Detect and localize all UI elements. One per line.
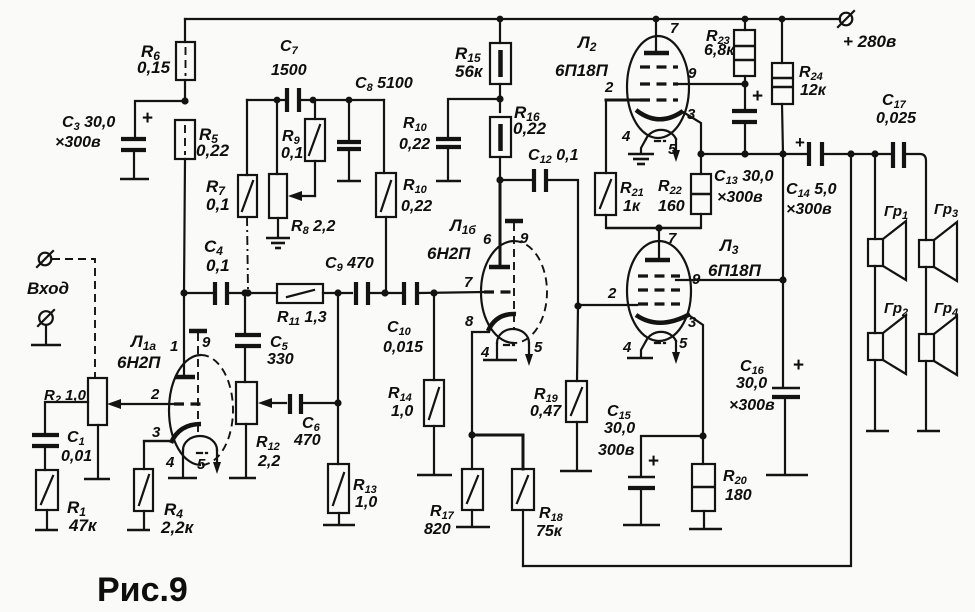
svg-text:×300в: ×300в: [786, 201, 832, 218]
pentode U-L2 envelope: [555, 33, 689, 138]
caption Рис.9: [97, 571, 188, 609]
tube L2 plate pin7: [644, 19, 679, 53]
svg-text:2,2к: 2,2к: [160, 518, 195, 537]
svg-text:Л3: Л3: [718, 236, 739, 257]
node junction R15/R16/C11: [496, 95, 503, 102]
resistor R16: [490, 103, 547, 180]
wire L3 screen: [676, 276, 787, 283]
resistor R7: [206, 100, 257, 291]
svg-text:1,0: 1,0: [355, 494, 377, 511]
svg-text:0,22: 0,22: [513, 119, 547, 138]
svg-text:+: +: [142, 108, 153, 129]
svg-text:0,01: 0,01: [61, 448, 92, 465]
svg-text:C1: C1: [67, 429, 85, 448]
svg-text:1: 1: [170, 338, 178, 355]
svg-text:Гр3: Гр3: [934, 201, 958, 220]
svg-text:Вход: Вход: [27, 279, 69, 298]
wire grid L3: [578, 304, 637, 306]
svg-text:5: 5: [679, 335, 688, 352]
capacitor C14: [786, 133, 890, 218]
svg-text:Гр4: Гр4: [934, 300, 958, 319]
resistor R14: [388, 293, 452, 475]
svg-text:C4: C4: [204, 237, 223, 258]
svg-text:47к: 47к: [68, 516, 98, 535]
wire input shield dashed: [52, 259, 95, 378]
tube L1b heater: [480, 329, 543, 366]
resistor R21: [595, 173, 644, 228]
resistor R9: [281, 100, 325, 196]
svg-text:6,8к: 6,8к: [704, 42, 735, 59]
svg-text:C7: C7: [280, 38, 299, 57]
svg-text:0,015: 0,015: [383, 339, 424, 356]
svg-text:1к: 1к: [623, 198, 641, 215]
wire screen column / C16: [782, 154, 784, 386]
capacitor C11 decoupling: [399, 99, 500, 181]
terminal input jack top: [37, 251, 53, 267]
svg-text:6П18П: 6П18П: [555, 61, 609, 80]
node junction R6/R5/C3: [181, 97, 188, 104]
svg-text:6Н2П: 6Н2П: [117, 353, 161, 372]
wire output rail y154: [697, 150, 806, 157]
svg-text:R24: R24: [799, 64, 823, 83]
wire feedback bottom: [523, 154, 851, 566]
svg-text:R12: R12: [256, 434, 280, 453]
svg-text:180: 180: [725, 487, 752, 504]
node junction plate column L1a: [180, 289, 187, 296]
svg-text:3: 3: [687, 106, 696, 123]
svg-text:Л1а: Л1а: [129, 332, 156, 353]
capacitor C5: [235, 293, 294, 382]
svg-text:3: 3: [152, 424, 161, 441]
svg-text:Рис.9: Рис.9: [97, 571, 188, 609]
resistor R13: [323, 293, 377, 525]
node junction C6/R13 column: [334, 399, 341, 406]
svg-text:1500: 1500: [271, 62, 307, 79]
tube L2 heater: [621, 128, 680, 162]
resistor R11: [277, 284, 327, 328]
svg-text:300в: 300в: [598, 442, 635, 459]
svg-text:C14 5,0: C14 5,0: [786, 181, 837, 200]
resistor R19: [530, 306, 592, 471]
pentode U-L3 envelope: [627, 236, 762, 341]
svg-text:6: 6: [483, 231, 492, 248]
svg-text:R20: R20: [723, 468, 748, 487]
tube L3 grids: [607, 271, 701, 304]
svg-text:R11 1,3: R11 1,3: [277, 309, 327, 328]
svg-text:0,1: 0,1: [206, 256, 230, 275]
svg-text:7: 7: [464, 274, 473, 291]
node junction C9/C10/R10: [381, 289, 388, 296]
resistor R23: [704, 19, 755, 84]
svg-text:+ 280в: + 280в: [843, 32, 896, 51]
svg-text:R21: R21: [620, 180, 644, 199]
tube L2 grids: [604, 65, 697, 100]
capacitor C1: [32, 429, 92, 470]
loudspeaker Gr1: [868, 154, 908, 280]
svg-text:470: 470: [293, 432, 321, 449]
tube L1b grid pin7: [464, 274, 514, 292]
loudspeaker Gr3: [919, 201, 958, 281]
svg-text:5: 5: [668, 141, 677, 158]
node junction C10/R14 grid: [430, 289, 437, 296]
svg-text:5: 5: [197, 456, 206, 473]
svg-text:×300в: ×300в: [55, 134, 101, 151]
node junction feedback tap: [847, 150, 854, 157]
tube L1b plate pin6: [483, 180, 510, 267]
svg-text:Гр1: Гр1: [884, 203, 908, 222]
svg-text:8: 8: [465, 313, 474, 330]
capacitor C12: [500, 147, 579, 306]
svg-text:56к: 56к: [455, 62, 484, 81]
svg-text:30,0: 30,0: [736, 375, 767, 392]
capacitor C17: [876, 92, 926, 240]
svg-text:R22: R22: [658, 178, 682, 197]
node junction R23/C13/screen: [741, 80, 748, 87]
resistor R20: [689, 436, 752, 529]
svg-text:9: 9: [520, 230, 529, 247]
capacitor C7: [271, 38, 307, 112]
wire L3 plate bar: [606, 224, 701, 231]
resistor R1: [35, 470, 98, 535]
svg-text:2: 2: [607, 285, 617, 302]
resistor R15: [455, 19, 511, 112]
svg-text:2: 2: [150, 386, 160, 403]
svg-text:C8 5100: C8 5100: [355, 75, 413, 94]
svg-text:4: 4: [621, 128, 631, 145]
triode U-L1b envelope: [427, 216, 547, 343]
svg-text:Гр2: Гр2: [884, 300, 908, 319]
node junction L3 cathode: [699, 432, 706, 439]
loudspeaker Gr4: [917, 267, 958, 431]
node Вход label: [27, 279, 69, 298]
svg-text:0,22: 0,22: [399, 136, 430, 153]
capacitor C6: [290, 394, 337, 449]
node junction L2 plate: [653, 16, 660, 23]
svg-text:R18: R18: [539, 505, 564, 524]
node junction C4/R7: [244, 289, 251, 296]
capacitor C16: [729, 355, 808, 475]
node junction C8 top: [346, 97, 353, 104]
svg-text:2,2: 2,2: [257, 453, 280, 470]
tube L3 cathode pin3: [636, 314, 703, 436]
tube L1a heater: [165, 436, 221, 478]
capacitor C8: [337, 75, 413, 181]
tube L1b cathode pin8: [465, 313, 516, 435]
svg-text:0,15: 0,15: [137, 58, 171, 77]
wire L2 control grid: [606, 100, 640, 173]
tube L2 cathode pin3: [636, 106, 701, 154]
svg-text:R14: R14: [388, 385, 412, 404]
capacitor C4: [204, 237, 230, 305]
svg-text:6Н2П: 6Н2П: [427, 244, 471, 263]
node junction R15 top: [497, 16, 504, 23]
svg-text:12к: 12к: [800, 82, 827, 99]
terminal input jack ground: [31, 310, 61, 345]
resistor R4: [127, 441, 195, 537]
svg-text:Л1б: Л1б: [448, 216, 476, 237]
resistor R6: [137, 19, 195, 101]
tube L3 plate pin7: [645, 228, 677, 260]
wire L2 screen to R23: [678, 83, 745, 85]
svg-text:R17: R17: [430, 503, 455, 522]
svg-text:330: 330: [267, 351, 294, 368]
terminal +280v: [838, 11, 896, 51]
svg-text:Л2: Л2: [576, 33, 597, 54]
svg-text:R8 2,2: R8 2,2: [291, 218, 335, 237]
loudspeaker Gr2: [866, 266, 908, 431]
svg-text:160: 160: [658, 198, 685, 215]
svg-text:0,1: 0,1: [206, 195, 230, 214]
svg-text:×300в: ×300в: [729, 397, 775, 414]
svg-text:3: 3: [688, 314, 697, 331]
svg-text:0,22: 0,22: [196, 141, 230, 160]
ground R8: [266, 238, 290, 248]
node junction R9 top: [310, 97, 317, 104]
capacitor C9: [325, 255, 374, 305]
svg-text:R10: R10: [403, 115, 428, 134]
svg-text:0,47: 0,47: [530, 403, 562, 420]
node junction R24 top: [779, 16, 786, 23]
svg-text:R10: R10: [403, 177, 428, 196]
capacitor C10: [383, 282, 424, 356]
resistor R24: [772, 19, 827, 154]
svg-text:+: +: [648, 451, 659, 472]
wire main coupling bus y293: [184, 292, 484, 293]
resistor R5: [175, 120, 230, 293]
tube L1a plate pin1: [170, 293, 195, 377]
triode U-L1a envelope: [117, 332, 233, 465]
ground L2 heater: [628, 154, 654, 164]
svg-text:2: 2: [604, 79, 614, 96]
svg-text:0,22: 0,22: [401, 198, 432, 215]
svg-text:R2 1,0: R2 1,0: [44, 387, 87, 406]
svg-text:9: 9: [202, 334, 211, 351]
svg-text:+: +: [793, 355, 804, 376]
potentiometer R12: [229, 382, 286, 478]
svg-text:4: 4: [165, 454, 175, 471]
svg-text:0,025: 0,025: [876, 110, 917, 127]
wire top +280V rail: [185, 18, 840, 20]
potentiometer R8: [269, 100, 335, 237]
wire C7 rail: [247, 99, 384, 101]
resistor R10: [376, 100, 432, 293]
tube L3 heater: [622, 332, 688, 364]
svg-text:9: 9: [688, 65, 697, 82]
tube L1a grid pin2: [150, 386, 201, 404]
svg-text:0,1: 0,1: [281, 145, 303, 162]
svg-text:7: 7: [670, 20, 679, 37]
svg-text:820: 820: [424, 521, 451, 538]
node junction C5 top: [241, 289, 248, 296]
svg-text:C9 470: C9 470: [325, 255, 374, 274]
svg-text:4: 4: [622, 339, 632, 356]
resistor R17: [424, 435, 490, 538]
svg-text:C17: C17: [882, 92, 907, 111]
svg-text:4: 4: [480, 344, 490, 361]
svg-text:C13 30,0: C13 30,0: [714, 168, 774, 187]
svg-text:C10: C10: [387, 319, 412, 338]
tube L1b grid-stub pin9: [505, 221, 529, 330]
svg-text:75к: 75к: [536, 523, 563, 540]
svg-text:1,0: 1,0: [391, 403, 413, 420]
svg-text:+: +: [752, 86, 763, 107]
node junction speaker col1: [871, 150, 878, 157]
node junction cathode/R17/R18: [468, 431, 475, 438]
capacitor C15: [598, 403, 703, 525]
svg-text:C3 30,0: C3 30,0: [62, 114, 115, 133]
svg-text:7: 7: [668, 230, 677, 247]
resistor R22: [658, 154, 711, 228]
node junction R11/C9/R13: [334, 289, 341, 296]
svg-text:5: 5: [534, 339, 543, 356]
svg-text:+: +: [795, 133, 805, 152]
capacitor C3: [55, 101, 185, 179]
svg-text:C12 0,1: C12 0,1: [528, 147, 579, 166]
capacitor C13: [714, 84, 774, 206]
svg-text:6П18П: 6П18П: [708, 261, 762, 280]
tube L1a grid-stub pin9: [189, 331, 211, 434]
svg-text:×300в: ×300в: [717, 189, 763, 206]
tube L1a cathode pin3: [144, 424, 201, 443]
resistor R18: [472, 435, 564, 566]
node junction R23 top: [742, 16, 749, 23]
node junction R16/C12/plate: [496, 176, 503, 183]
node junction R8 top: [274, 97, 281, 104]
svg-text:30,0: 30,0: [604, 420, 635, 437]
node junction C12/R19/grid L3: [574, 302, 581, 309]
potentiometer R2: [44, 378, 174, 479]
